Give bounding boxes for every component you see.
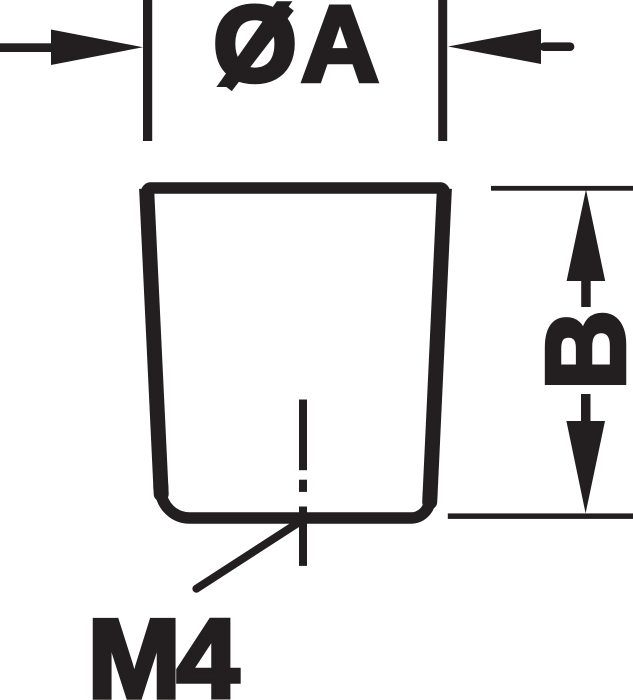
svg-text:M4: M4 [88, 597, 239, 700]
svg-text:B: B [524, 310, 633, 390]
svg-text:ØA: ØA [213, 0, 383, 104]
